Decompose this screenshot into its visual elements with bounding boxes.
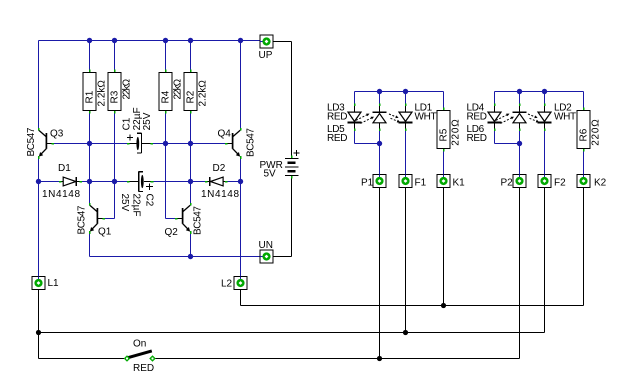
wire LED cluster1 top rail bbox=[355, 91, 444, 93]
svg-text:RED: RED bbox=[327, 133, 347, 144]
wire LD3 top pin bbox=[354, 92, 356, 105]
wire right rail lower bbox=[240, 158, 242, 277]
svg-text:220Ω: 220Ω bbox=[451, 118, 462, 145]
emission arrows LD3/LD5 bbox=[356, 114, 374, 124]
capacitor C1 22uF 25V bbox=[121, 107, 153, 153]
terminal UP bbox=[259, 35, 274, 61]
svg-text:C1: C1 bbox=[121, 117, 132, 130]
wire R1 column down to Q1 collector bbox=[89, 113, 91, 205]
junction D row x=240.5 bbox=[238, 179, 243, 184]
svg-text:F1: F1 bbox=[415, 178, 427, 189]
wire left rail lower bbox=[38, 158, 40, 277]
junction top rail x=190.5 bbox=[188, 38, 193, 43]
svg-text:Q2: Q2 bbox=[165, 227, 179, 238]
terminal F2 bbox=[538, 175, 566, 189]
svg-text:R1: R1 bbox=[85, 90, 96, 103]
junction D row x=89.5 bbox=[87, 179, 92, 184]
junction C1 row x=190.5 bbox=[188, 141, 193, 146]
wire LD2 bottom to F2 bbox=[544, 130, 546, 174]
terminal UN bbox=[259, 240, 274, 263]
svg-text:RED: RED bbox=[467, 133, 487, 144]
wire F1 down (vertical) bbox=[405, 188, 407, 333]
wire LD5 top pin bbox=[379, 92, 381, 105]
wire K2 down (vertical) bbox=[583, 188, 585, 306]
junction F net / L1 column bbox=[36, 330, 41, 335]
svg-text:L1: L1 bbox=[48, 278, 60, 289]
terminal K1 bbox=[437, 175, 465, 189]
junction LD6 bottom bbox=[517, 141, 522, 146]
wire P1 down (vertical) bbox=[379, 188, 381, 359]
svg-text:R5: R5 bbox=[439, 128, 450, 141]
wire K net row bbox=[241, 305, 584, 307]
wire LD3-LD5 bottom link bbox=[355, 143, 380, 145]
terminal L2 bbox=[221, 277, 247, 290]
wire P2 down (vertical) bbox=[519, 188, 521, 359]
junction C1 row x=165.5 bbox=[163, 141, 168, 146]
wire UP to battery (horizontal) bbox=[273, 41, 292, 43]
wire LD4-LD6 bottom link bbox=[495, 143, 520, 145]
wire D row segment 3 bbox=[153, 181, 207, 183]
svg-text:BC547: BC547 bbox=[246, 128, 257, 157]
wire Q1 base row bbox=[104, 218, 115, 220]
junction top rail x=165.5 bbox=[163, 38, 168, 43]
svg-text:UN: UN bbox=[259, 240, 273, 251]
svg-text:2.2kΩ: 2.2kΩ bbox=[198, 80, 209, 107]
svg-text:22kΩ: 22kΩ bbox=[122, 78, 133, 99]
wire Q2 emitter down bbox=[190, 234, 192, 257]
labels cluster1 LEDs bbox=[327, 103, 437, 145]
wire C1 row left segment bbox=[53, 143, 128, 145]
wire LD2 top pin bbox=[544, 92, 546, 105]
wire Q2 base row bbox=[166, 218, 177, 220]
wire R4 column down to Q2 base bbox=[165, 113, 167, 219]
resistor R4 bbox=[159, 69, 184, 113]
resistor R5 bbox=[437, 107, 462, 151]
emission arrows LD1 bbox=[389, 114, 400, 122]
svg-text:BC547: BC547 bbox=[77, 205, 88, 234]
junction D row x=190.5 bbox=[188, 179, 193, 184]
wire D row segment 4 bbox=[227, 181, 241, 183]
wire F net row bbox=[39, 332, 545, 334]
LED LD3 RED bbox=[348, 104, 362, 132]
diode D1 1N4148 bbox=[42, 163, 82, 200]
svg-text:D2: D2 bbox=[213, 163, 226, 174]
svg-text:R4: R4 bbox=[161, 90, 172, 103]
junction P1 / P net row bbox=[377, 356, 382, 361]
svg-text:BC547: BC547 bbox=[26, 127, 37, 156]
LED LD2 WHT bbox=[538, 104, 552, 132]
svg-text:R2: R2 bbox=[186, 90, 197, 103]
transistor Q4 BC547 bbox=[225, 128, 242, 159]
wire R3 top pin bbox=[114, 41, 116, 71]
wire F2 down (vertical) bbox=[544, 188, 546, 333]
svg-text:25V: 25V bbox=[142, 112, 153, 130]
wire LD6 bottom to P2 bbox=[519, 130, 521, 174]
wire R3 column down to Q1 base bbox=[114, 113, 116, 219]
junction LD5 bottom bbox=[377, 141, 382, 146]
LED LD4 RED bbox=[488, 104, 502, 132]
svg-text:D1: D1 bbox=[58, 163, 71, 174]
junction cluster1 rail LD1 bbox=[403, 89, 408, 94]
resistor R6 bbox=[577, 107, 602, 151]
wire P net row right of switch bbox=[156, 358, 520, 360]
terminal L1 bbox=[32, 277, 59, 290]
wire R2 top pin bbox=[190, 41, 192, 71]
wire L2 down (vertical) bbox=[240, 290, 242, 306]
junction F1 / F net row bbox=[403, 330, 408, 335]
junction cluster2 rail LD2 bbox=[542, 89, 547, 94]
svg-text:WHT: WHT bbox=[554, 112, 576, 123]
junction D row x=114.5 bbox=[112, 179, 117, 184]
junction Q2 emitter / bottom row bbox=[188, 254, 193, 259]
wire LD4 bottom pin bbox=[494, 130, 496, 143]
emission arrows LD2 bbox=[528, 114, 539, 122]
svg-text:Q4: Q4 bbox=[218, 129, 232, 140]
LED LD6 RED bbox=[513, 104, 527, 132]
svg-text:F2: F2 bbox=[554, 178, 566, 189]
transistor Q3 BC547 bbox=[38, 128, 54, 159]
wire R2 column down to Q2 collector bbox=[190, 113, 192, 205]
svg-text:2.2kΩ: 2.2kΩ bbox=[97, 80, 108, 107]
junction K1 / K net row bbox=[441, 303, 446, 308]
wire R4 top pin bbox=[165, 41, 167, 71]
resistor R3 bbox=[108, 69, 133, 113]
junction top rail x=89.5 bbox=[87, 38, 92, 43]
wire emitter row to UN bbox=[90, 256, 261, 258]
terminal P1 bbox=[361, 175, 386, 189]
svg-text:Q1: Q1 bbox=[98, 227, 112, 238]
resistor R1 bbox=[83, 69, 108, 113]
LED LD5 RED bbox=[373, 104, 387, 132]
junction top rail x=240.5 bbox=[238, 38, 243, 43]
diode D2 1N4148 bbox=[201, 163, 240, 200]
svg-text:220Ω: 220Ω bbox=[591, 118, 602, 145]
wire LD1 top pin bbox=[405, 92, 407, 105]
wire R6 top pin bbox=[583, 92, 585, 109]
svg-text:R3: R3 bbox=[110, 90, 121, 103]
svg-text:On: On bbox=[133, 339, 146, 350]
svg-text:22kΩ: 22kΩ bbox=[173, 78, 184, 99]
svg-text:P2: P2 bbox=[501, 178, 514, 189]
capacitor C2 22uF 25V bbox=[119, 172, 155, 217]
wire top supply rail bbox=[39, 40, 261, 42]
wire battery to UN (horizontal) bbox=[273, 256, 292, 258]
svg-text:1N4148: 1N4148 bbox=[42, 189, 81, 200]
wire D row segment 1 bbox=[39, 181, 60, 183]
wire D row segment 2 bbox=[81, 181, 128, 183]
svg-text:WHT: WHT bbox=[415, 112, 437, 123]
svg-text:BC547: BC547 bbox=[192, 206, 203, 235]
junction C1 row x=89.5 bbox=[87, 141, 92, 146]
svg-text:L2: L2 bbox=[221, 279, 233, 290]
battery PWR 5V bbox=[260, 150, 300, 180]
wire K1 down (vertical) bbox=[443, 188, 445, 306]
wire R6 bottom to K2 bbox=[583, 150, 585, 174]
wire battery positive (vertical) bbox=[291, 42, 293, 157]
wire LD3 bottom pin bbox=[354, 130, 356, 143]
junction top rail x=114.5 bbox=[112, 38, 117, 43]
svg-text:R6: R6 bbox=[579, 128, 590, 141]
wire LED cluster2 top rail bbox=[495, 91, 584, 93]
wire P net row left of switch bbox=[39, 358, 124, 360]
terminal F1 bbox=[399, 175, 427, 189]
svg-text:5V: 5V bbox=[264, 169, 277, 180]
terminal P2 bbox=[501, 175, 527, 189]
svg-text:K2: K2 bbox=[594, 178, 607, 189]
LED LD1 WHT bbox=[399, 104, 413, 132]
wire LD6 top pin bbox=[519, 92, 521, 105]
wire R1 top pin bbox=[89, 41, 91, 71]
transistor Q2 BC547 bbox=[175, 203, 192, 234]
labels cluster2 LEDs bbox=[467, 103, 577, 145]
wire C1 row right segment bbox=[152, 143, 226, 145]
svg-text:K1: K1 bbox=[453, 178, 466, 189]
wire Q1 emitter down bbox=[89, 234, 91, 257]
wire LD5 bottom to P1 bbox=[379, 130, 381, 174]
junction cluster1 rail LD5 bbox=[377, 89, 382, 94]
switch On RED bbox=[124, 339, 156, 375]
svg-text:1N4148: 1N4148 bbox=[201, 189, 240, 200]
wire LD1 bottom to F1 bbox=[405, 130, 407, 174]
resistor R2 bbox=[184, 69, 209, 113]
wire L1 down (vertical) bbox=[38, 290, 40, 359]
wire R5 top pin bbox=[443, 92, 445, 109]
svg-text:UP: UP bbox=[259, 50, 273, 61]
svg-text:RED: RED bbox=[467, 112, 487, 123]
junction D row x=38.5 bbox=[36, 179, 41, 184]
svg-text:P1: P1 bbox=[361, 178, 374, 189]
terminal K2 bbox=[577, 175, 607, 189]
wire LD4 top pin bbox=[494, 92, 496, 105]
svg-text:22µF: 22µF bbox=[131, 194, 142, 217]
wire R5 bottom to K1 bbox=[443, 150, 445, 174]
svg-text:25V: 25V bbox=[119, 194, 130, 212]
wire left rail upper bbox=[38, 41, 40, 130]
transistor Q1 BC547 bbox=[89, 203, 105, 234]
svg-text:RED: RED bbox=[327, 112, 347, 123]
junction cluster2 rail LD6 bbox=[517, 89, 522, 94]
wire battery negative (vertical) bbox=[291, 177, 293, 256]
wire right rail upper bbox=[240, 41, 242, 130]
svg-text:Q3: Q3 bbox=[50, 129, 64, 140]
svg-text:C2: C2 bbox=[144, 194, 155, 207]
emission arrows LD4/LD6 bbox=[496, 114, 514, 124]
svg-text:RED: RED bbox=[133, 363, 154, 374]
